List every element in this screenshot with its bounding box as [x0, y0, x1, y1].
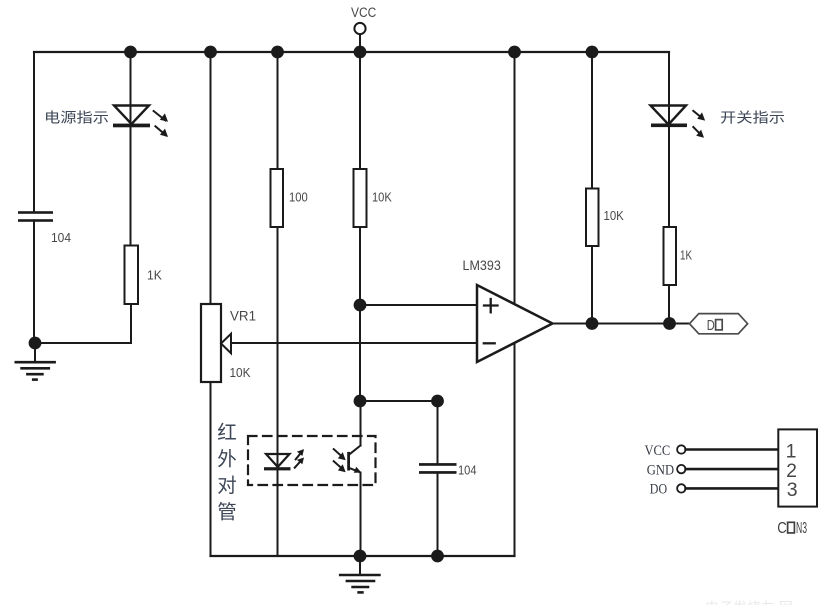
- wire collector to C104: [360, 400, 438, 402]
- wire minus input from wiper: [231, 342, 477, 344]
- svg-text:GND: GND: [647, 462, 674, 478]
- LED D2 switch indicator: [651, 106, 688, 128]
- svg-text:10K: 10K: [230, 365, 251, 380]
- svg-text:10K: 10K: [604, 208, 625, 223]
- wire LED1 / 1K-left column: [130, 52, 132, 246]
- svg-text:1K: 1K: [680, 248, 692, 263]
- LED D1 power indicator: [113, 106, 150, 128]
- wire CON3 pin 3: [686, 487, 779, 490]
- label CON3 name: [777, 520, 807, 537]
- svg-text:D: D: [707, 318, 715, 334]
- LED D1 emission arrows: [154, 111, 168, 137]
- op-amp U1 LM393: [477, 285, 553, 362]
- wire C104-mid lower: [437, 474, 439, 556]
- svg-text:104: 104: [51, 230, 71, 245]
- node top rail + R100: [271, 46, 284, 59]
- port flag DO: [690, 314, 748, 334]
- svg-text:电子发烧友 网: 电子发烧友 网: [705, 600, 793, 605]
- resistor 10K (mid): [354, 169, 367, 227]
- wire left column lower: [33, 222, 35, 343]
- phototransistor Q1: [347, 401, 361, 556]
- wire VR1 column lower: [210, 382, 212, 556]
- power port VCC circle: [354, 23, 365, 34]
- ground (left): [16, 343, 55, 380]
- wire LM393 supply column: [514, 52, 516, 556]
- wire comparator output: [553, 323, 690, 325]
- phototransistor incident arrows: [334, 449, 346, 472]
- potentiometer VR1 wiper arrow: [221, 334, 231, 353]
- svg-text:红: 红: [217, 422, 237, 444]
- capacitor 104 (mid): [419, 463, 457, 474]
- wire 1K-left bottom to ground node: [35, 304, 131, 343]
- IR LED emitter in pair: [264, 454, 291, 470]
- node ground-left junction: [29, 337, 42, 350]
- wire CON3 pin 1: [686, 448, 779, 451]
- ground (mid): [340, 556, 379, 592]
- wire VCC stub: [359, 34, 361, 52]
- wire plus input: [360, 304, 477, 306]
- connector CON3 pin circles: [677, 445, 685, 492]
- svg-text:VCC: VCC: [351, 5, 377, 20]
- svg-text:开关指示: 开关指示: [720, 111, 785, 127]
- node ground-mid junction: [354, 550, 367, 563]
- wire CON3 pin 2: [686, 468, 779, 471]
- node top rail + LED1: [124, 46, 137, 59]
- wire LED2 / 1K-right column: [668, 52, 670, 324]
- capacitor 104 (left): [18, 211, 53, 222]
- wire VR1 column upper: [210, 52, 212, 304]
- IR pair dashed box: [248, 436, 376, 485]
- svg-text:对: 对: [217, 475, 237, 497]
- wire R10K-right column: [591, 52, 593, 324]
- wire R100 / IR-LED column: [277, 52, 279, 556]
- resistor 1K (left): [125, 246, 139, 305]
- svg-text:1K: 1K: [147, 268, 162, 283]
- resistor 10K (right): [586, 189, 599, 247]
- wire C104-mid upper: [437, 401, 439, 463]
- svg-text:管: 管: [217, 502, 237, 524]
- label 红外对管: [217, 422, 237, 524]
- node top rail VCC junction: [354, 46, 367, 59]
- node top rail + LM393 supply: [508, 46, 521, 59]
- wire bottom ground rail: [211, 555, 515, 557]
- svg-text:VR1: VR1: [230, 309, 256, 324]
- IR LED emission arrows: [295, 449, 304, 468]
- node top rail + R10K-right: [586, 46, 599, 59]
- svg-text:C: C: [777, 520, 787, 537]
- svg-text:104: 104: [458, 463, 477, 478]
- resistor 100: [271, 169, 284, 227]
- svg-text:10K: 10K: [372, 189, 392, 204]
- node plus-input junction: [354, 299, 367, 312]
- potentiometer VR1 body: [201, 304, 221, 382]
- svg-text:电源指示: 电源指示: [44, 111, 109, 127]
- svg-text:外: 外: [217, 449, 237, 471]
- svg-text:LM393: LM393: [463, 257, 501, 273]
- svg-text:DO: DO: [650, 482, 667, 498]
- LED D2 emission arrows: [693, 111, 705, 138]
- wire left column upper: [33, 52, 35, 212]
- svg-text:VCC: VCC: [645, 443, 671, 459]
- wire top VCC rail: [34, 51, 669, 53]
- node output + R1K-right: [663, 317, 676, 330]
- svg-text:3: 3: [787, 479, 798, 501]
- svg-text:100: 100: [289, 189, 308, 204]
- connector CON3 body: [778, 429, 817, 506]
- resistor 1K (right): [664, 227, 677, 285]
- node top rail + VR1: [204, 46, 217, 59]
- node C104 top junction: [431, 395, 444, 408]
- node collector junction: [354, 395, 367, 408]
- node C104 bottom junction: [431, 550, 444, 563]
- wire R10K-mid column upper: [359, 52, 361, 401]
- node output + R10K-right: [586, 317, 599, 330]
- svg-text:N3: N3: [796, 520, 807, 537]
